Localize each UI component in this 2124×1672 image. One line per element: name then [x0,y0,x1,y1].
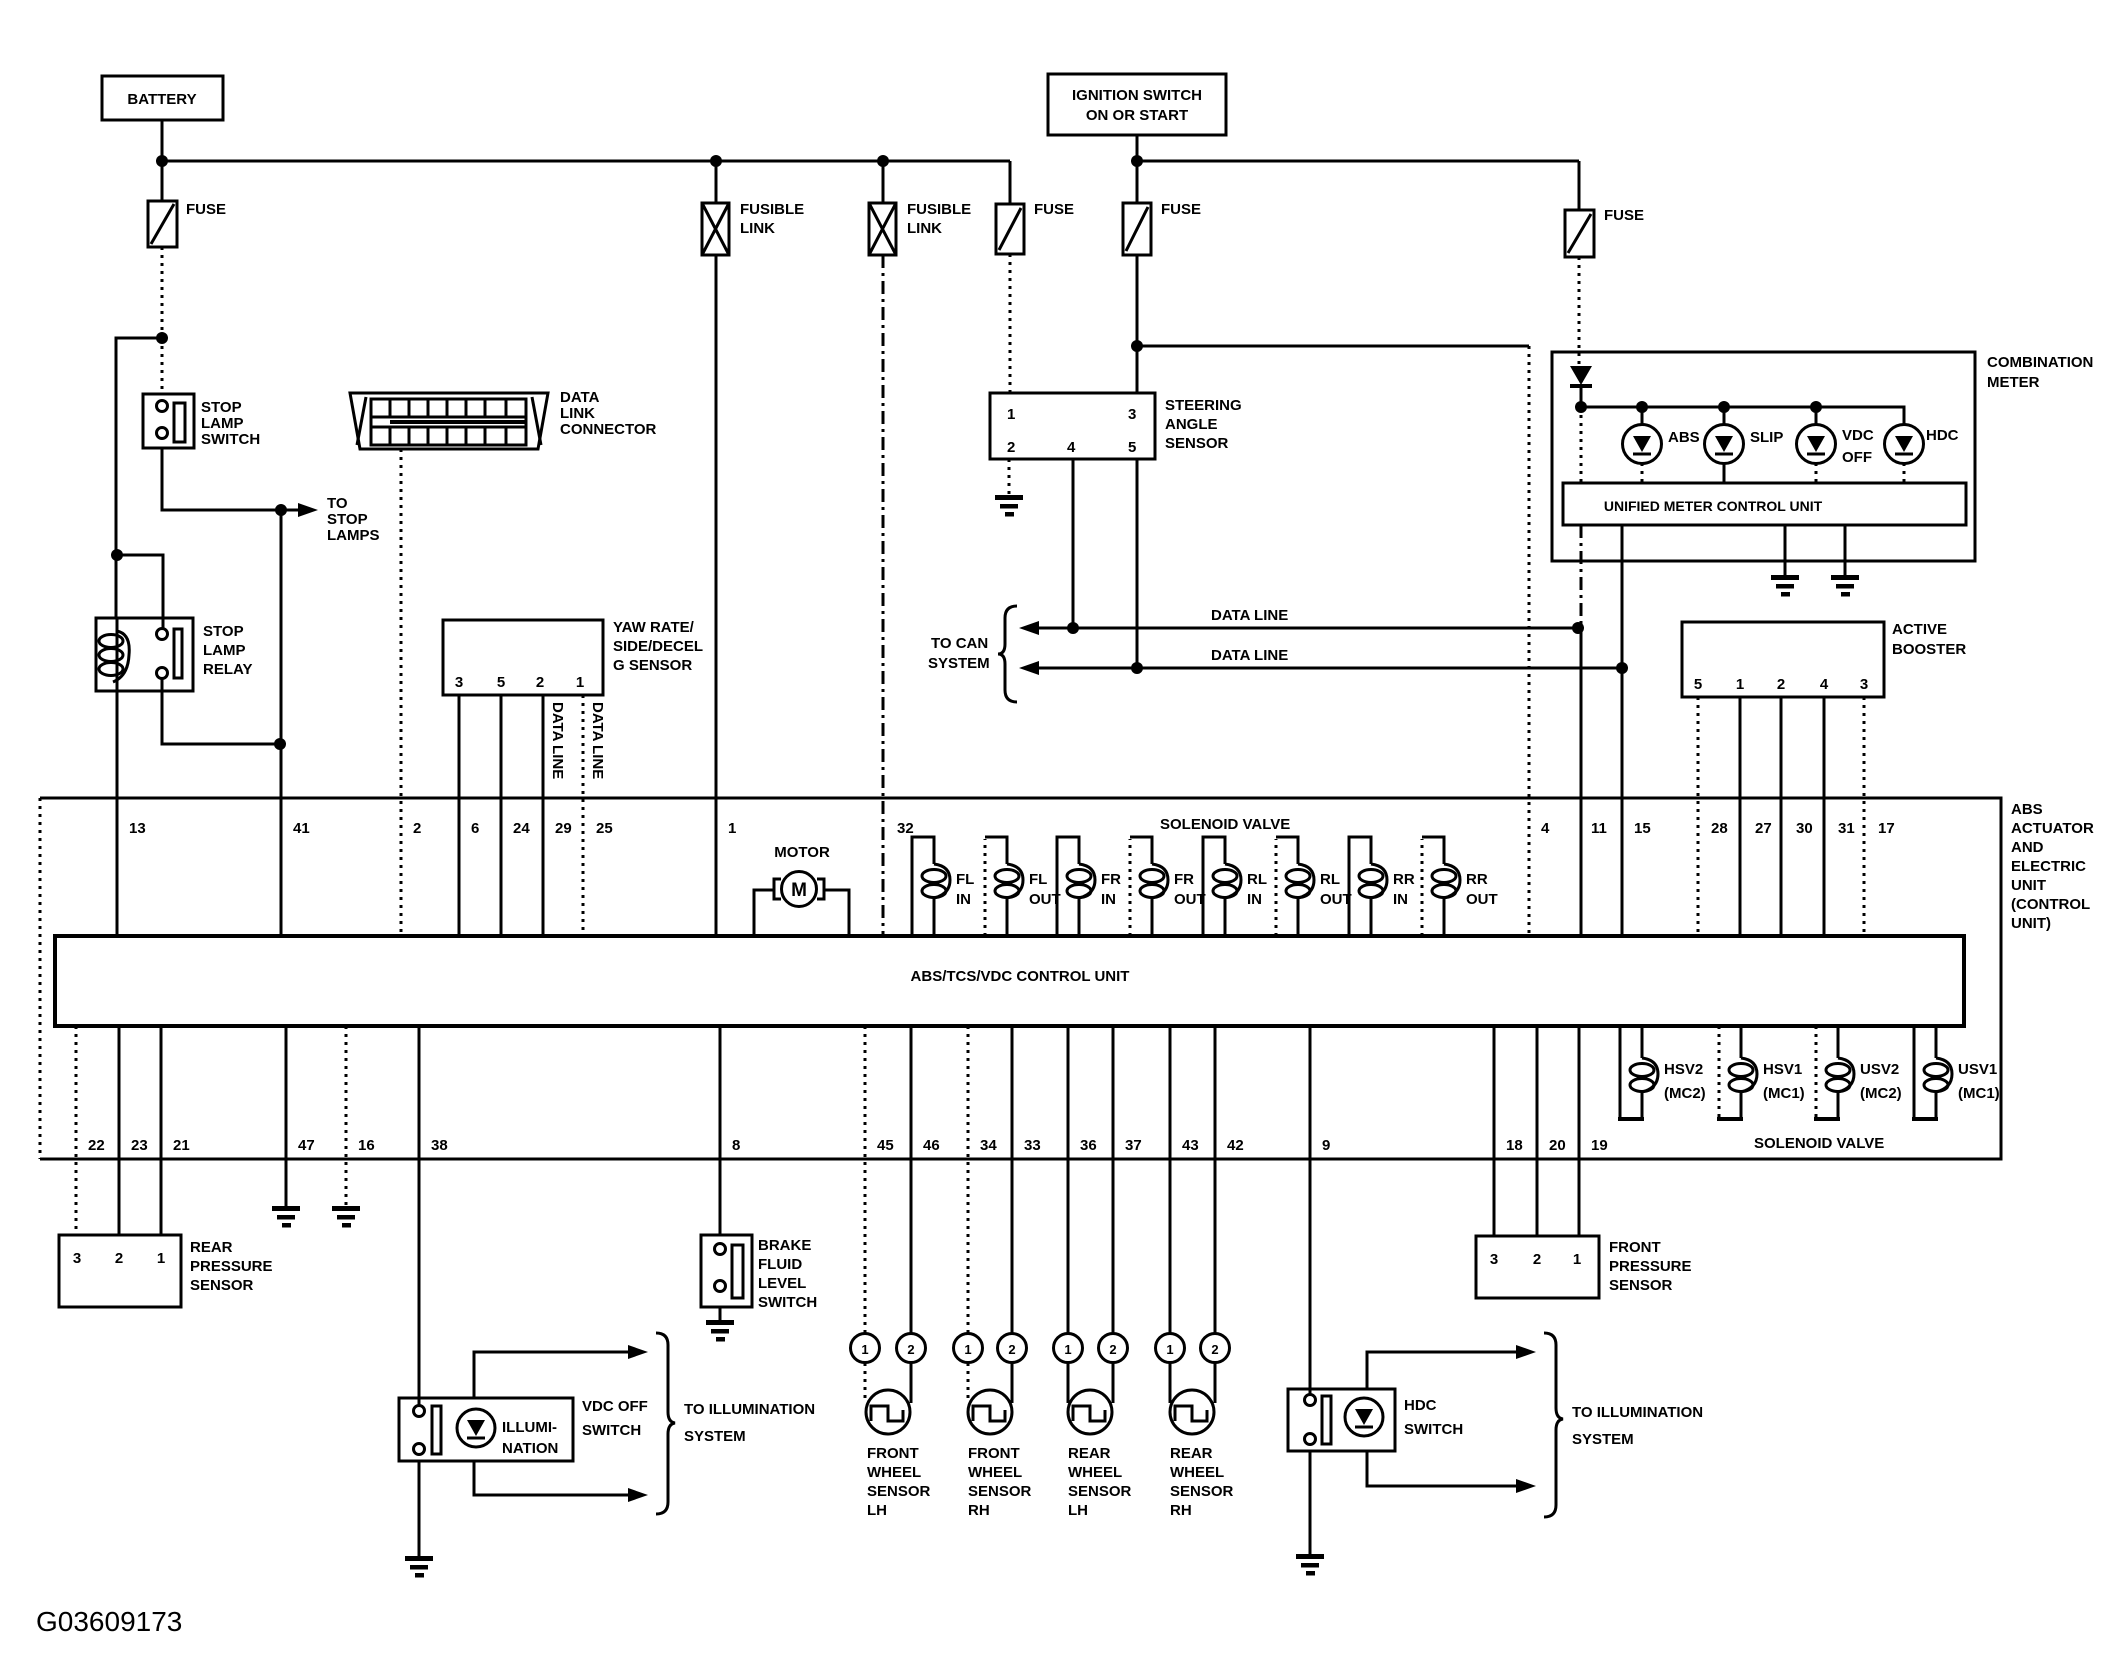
svg-text:METER: METER [1987,374,2040,391]
svg-text:42: 42 [1227,1137,1244,1154]
wire VDC illumination lower arrow [474,1461,648,1502]
node meter wire on data line 1 [1572,622,1584,634]
svg-text:FUSE: FUSE [1604,207,1644,224]
svg-text:1: 1 [1166,1342,1173,1357]
wire diode to UMCU [1580,407,1583,483]
node ABS lamp junction [1636,401,1648,413]
svg-text:PRESSURE: PRESSURE [190,1258,273,1275]
svg-text:22: 22 [88,1137,105,1154]
svg-text:FRONT: FRONT [968,1445,1020,1462]
svg-text:15: 15 [1634,820,1651,837]
svg-text:2: 2 [1777,676,1785,693]
svg-text:FUSIBLE: FUSIBLE [907,201,971,218]
node steering pin5 on data line 2 [1131,662,1143,674]
svg-text:2: 2 [413,820,421,837]
svg-text:46: 46 [923,1137,940,1154]
svg-text:20: 20 [1549,1137,1566,1154]
svg-text:21: 21 [173,1137,190,1154]
fusible link FL2 [869,161,971,255]
svg-text:3: 3 [455,674,463,691]
svg-text:2: 2 [536,674,544,691]
svg-text:UNIT: UNIT [2011,877,2046,894]
ground brake fluid switch [706,1320,734,1342]
battery B1 [102,76,223,120]
svg-text:1: 1 [964,1342,971,1357]
fuse F4 [1123,161,1201,255]
svg-text:HSV1: HSV1 [1763,1061,1802,1078]
svg-text:32: 32 [897,820,914,837]
svg-text:DATA LINE: DATA LINE [589,702,606,779]
ground UMCU 2 [1831,575,1859,597]
wire yaw pin1 to pin 25 [582,695,585,936]
svg-text:SWITCH: SWITCH [1404,1421,1463,1438]
wire data line 1 to pin 11 [1580,628,1583,936]
svg-text:RH: RH [968,1502,990,1519]
svg-text:UNIT): UNIT) [2011,915,2051,932]
wire pin 33 to sensor pin [1011,1026,1014,1334]
svg-text:ABS/TCS/VDC CONTROL UNIT: ABS/TCS/VDC CONTROL UNIT [911,968,1130,985]
svg-text:LH: LH [1068,1502,1088,1519]
wire bus A (battery feed) [162,160,1010,163]
svg-text:3: 3 [1490,1251,1498,1268]
svg-text:4: 4 [1067,439,1076,456]
ground HDC switch [1296,1554,1324,1576]
svg-text:FUSE: FUSE [186,201,226,218]
svg-text:9: 9 [1322,1137,1330,1154]
svg-text:FRONT: FRONT [1609,1239,1661,1256]
fuse F1 [148,201,226,247]
wire branch to relay column [116,338,162,618]
lamp HDC [1885,425,1959,484]
wire bus B (ignition feed) [1137,160,1579,163]
combination meter box [1552,352,2093,561]
svg-text:DATA LINE: DATA LINE [1211,647,1288,664]
svg-text:SWITCH: SWITCH [758,1294,817,1311]
svg-text:CONNECTOR: CONNECTOR [560,421,657,438]
svg-text:1: 1 [728,820,736,837]
wire data line 1 [1019,621,1578,635]
node meter wire on data line 2 [1616,662,1628,674]
wire pin 9 to HDC switch [1309,1026,1312,1395]
svg-text:SENSOR: SENSOR [1068,1483,1132,1500]
svg-text:(MC1): (MC1) [1763,1085,1805,1102]
svg-text:REAR: REAR [1068,1445,1111,1462]
front pressure sensor [1476,1236,1692,1298]
wire data line 2 [1019,661,1622,675]
svg-text:23: 23 [131,1137,148,1154]
svg-text:SENSOR: SENSOR [190,1277,254,1294]
wire UMCU to data line 1 (pin 11 feed) [1580,525,1583,628]
svg-text:31: 31 [1838,820,1855,837]
svg-text:ELECTRIC: ELECTRIC [2011,858,2086,875]
svg-text:1: 1 [1573,1251,1581,1268]
solenoid valve RL OUT [1276,837,1352,936]
svg-text:FUSE: FUSE [1161,201,1201,218]
wire steering pin4 to data line 1 [1072,459,1075,628]
svg-text:RL: RL [1320,871,1340,888]
wire pin 34 to sensor pin [967,1026,970,1334]
wire pin 46 to sensor pin [910,1026,913,1334]
front wheel sensor LH [851,1334,931,1520]
svg-text:STOP: STOP [327,511,368,528]
active booster box [1682,621,1966,697]
wire yaw pin3 to pin 6 [458,695,461,936]
svg-text:1: 1 [1064,1342,1071,1357]
wire UMCU ground 1 [1784,525,1787,577]
ABS/TCS/VDC control unit box [55,936,1964,1026]
wire relay contact to node 41 [162,678,280,744]
wire VDC OFF switch to ground [418,1461,421,1558]
wire fuse F3 to steering pin 1 [1009,254,1012,393]
svg-text:SYSTEM: SYSTEM [1572,1431,1634,1448]
svg-text:HDC: HDC [1926,427,1959,444]
svg-text:USV2: USV2 [1860,1061,1899,1078]
VDC OFF switch [399,1398,648,1461]
svg-text:ILLUMI-: ILLUMI- [502,1419,557,1436]
solenoid valve USV1 (MC1) [1912,1026,2000,1119]
svg-text:FRONT: FRONT [867,1445,919,1462]
svg-text:ABS: ABS [1668,429,1700,446]
svg-text:37: 37 [1125,1137,1142,1154]
svg-text:SWITCH: SWITCH [201,431,260,448]
svg-text:WHEEL: WHEEL [867,1464,921,1481]
ignition switch box [1048,74,1226,135]
svg-text:SIDE/DECEL: SIDE/DECEL [613,638,703,655]
wire fusible link 2 to pin 32 [882,255,885,936]
svg-text:SENSOR: SENSOR [968,1483,1032,1500]
wire data line 2 to pin 15 [1621,668,1624,936]
svg-text:2: 2 [1211,1342,1218,1357]
wire lamp feed bus [1581,407,1904,425]
svg-text:13: 13 [129,820,146,837]
svg-text:4: 4 [1820,676,1829,693]
wire HDC illumination upper arrow [1367,1345,1536,1389]
wire yaw pin2 to pin 29 [542,695,545,936]
data link connector J1 [350,389,657,449]
svg-text:LINK: LINK [560,405,595,422]
svg-text:DATA LINE: DATA LINE [549,702,566,779]
svg-text:SENSOR: SENSOR [867,1483,931,1500]
svg-text:AND: AND [2011,839,2044,856]
stop lamp relay K1 [96,618,252,691]
svg-text:RH: RH [1170,1502,1192,1519]
svg-text:IGNITION SWITCH: IGNITION SWITCH [1072,87,1202,104]
svg-text:FR: FR [1101,871,1121,888]
wire pin 43 to sensor pin [1169,1026,1172,1334]
yaw rate/side/decel G sensor [443,619,703,695]
svg-text:OUT: OUT [1320,891,1352,908]
brace VDC illumination [656,1333,675,1514]
label TO CAN SYSTEM [928,635,990,672]
svg-text:43: 43 [1182,1137,1199,1154]
fuse F3 [996,161,1074,254]
svg-text:IN: IN [1393,891,1408,908]
solenoid valve FR IN [1057,837,1121,936]
wire pin 20 to front pressure sensor [1536,1026,1539,1236]
solenoid valve RR IN [1349,837,1415,936]
wire HDC illumination lower arrow [1367,1451,1536,1493]
svg-text:LAMP: LAMP [203,642,246,659]
solenoid valve FR OUT [1130,837,1206,936]
svg-text:IN: IN [1101,891,1116,908]
solenoid valve FL IN [912,837,974,936]
svg-text:1: 1 [576,674,584,691]
wire pin 22 to rear pressure sensor [75,1026,78,1235]
svg-text:ON OR START: ON OR START [1086,107,1188,124]
svg-text:LAMP: LAMP [201,415,244,432]
svg-text:PRESSURE: PRESSURE [1609,1258,1692,1275]
svg-text:OUT: OUT [1174,891,1206,908]
diode D1 [1570,366,1592,407]
svg-text:1: 1 [157,1250,165,1267]
wire node to pin 4 column [1137,345,1529,348]
svg-text:REAR: REAR [1170,1445,1213,1462]
svg-text:(MC2): (MC2) [1664,1085,1706,1102]
lamp ABS [1623,407,1700,483]
wire fuse F4 to node [1136,255,1139,346]
wire arrow to stop lamps [281,495,380,544]
svg-text:COMBINATION: COMBINATION [1987,354,2093,371]
label to illumination system left [684,1401,815,1445]
node relay-41 junction [274,738,286,750]
node steering/pin4 junction [1131,340,1143,352]
svg-text:SENSOR: SENSOR [1165,435,1229,452]
steering angle sensor [990,393,1242,459]
svg-text:DATA: DATA [560,389,600,406]
wire pin 45 to sensor pin [864,1026,867,1334]
rear pressure sensor [59,1235,273,1307]
wire pin 19 to front pressure sensor [1578,1026,1581,1236]
svg-text:RELAY: RELAY [203,661,252,678]
svg-text:2: 2 [115,1250,123,1267]
wire UMCU ground 2 [1844,525,1847,577]
wire booster pin5 to pin 28 [1697,697,1700,936]
node steering pin4 on data line 1 [1067,622,1079,634]
svg-text:3: 3 [1860,676,1868,693]
label to illumination system right [1572,1404,1703,1448]
wire fuse F1 to junction [161,247,164,338]
svg-text:RL: RL [1247,871,1267,888]
wire booster pin1 to pin 27 [1739,697,1742,936]
wire yaw pin5 to pin 24 [500,695,503,936]
wire booster pin4 to pin 31 [1823,697,1826,936]
node battery bus junction [156,155,168,167]
svg-text:ACTIVE: ACTIVE [1892,621,1947,638]
svg-text:18: 18 [1506,1137,1523,1154]
svg-text:2: 2 [1109,1342,1116,1357]
svg-text:29: 29 [555,820,572,837]
wire steering pin2 to ground [1008,459,1011,497]
svg-text:SOLENOID VALVE: SOLENOID VALVE [1754,1135,1884,1152]
svg-text:FUSIBLE: FUSIBLE [740,201,804,218]
ground pin 16 [332,1206,360,1228]
wire pin 16 to ground [345,1026,348,1208]
wire steering pin5 to data line 2 [1136,459,1139,668]
solenoid valve RL IN [1203,837,1267,936]
svg-text:G03609173: G03609173 [36,1606,182,1637]
svg-text:FLUID: FLUID [758,1256,802,1273]
wire stop lamp switch to stop lamps [162,448,281,510]
fuse F5 [1565,161,1644,257]
node VDC OFF lamp junction [1810,401,1822,413]
solenoid valve HSV2 (MC2) [1618,1026,1706,1119]
brace HDC illumination [1544,1333,1563,1517]
svg-text:BATTERY: BATTERY [127,91,196,108]
svg-text:47: 47 [298,1137,315,1154]
ground pin 47 [272,1206,300,1228]
svg-text:LH: LH [867,1502,887,1519]
svg-text:OFF: OFF [1842,449,1872,466]
svg-text:25: 25 [596,820,613,837]
rear wheel sensor RH [1156,1334,1234,1520]
node stop-lamp branch junction [156,332,168,344]
wire relay coil to pin 13 [116,691,119,936]
svg-text:16: 16 [358,1137,375,1154]
svg-text:RR: RR [1393,871,1415,888]
svg-text:ACTUATOR: ACTUATOR [2011,820,2094,837]
svg-text:ABS: ABS [2011,801,2043,818]
wire junction to relay contact [117,555,163,629]
node SLIP lamp junction [1718,401,1730,413]
svg-text:OUT: OUT [1466,891,1498,908]
svg-text:(MC2): (MC2) [1860,1085,1902,1102]
solenoid valve FL OUT [985,837,1061,936]
svg-text:STEERING: STEERING [1165,397,1242,414]
svg-text:5: 5 [1128,439,1136,456]
brace to CAN system [998,606,1017,702]
node fusible link 2 junction [877,155,889,167]
lamp SLIP [1705,407,1784,483]
svg-text:17: 17 [1878,820,1895,837]
svg-text:2: 2 [1007,439,1015,456]
svg-text:27: 27 [1755,820,1772,837]
wire DLC to pin 2 [400,449,403,936]
svg-text:SLIP: SLIP [1750,429,1783,446]
svg-text:(CONTROL: (CONTROL [2011,896,2090,913]
wire node to steering pin 3 [1136,346,1139,393]
svg-text:5: 5 [497,674,505,691]
svg-text:REAR: REAR [190,1239,233,1256]
svg-text:YAW RATE/: YAW RATE/ [613,619,695,636]
wire node to pin 41 [280,510,283,936]
wire booster pin2 to pin 30 [1780,697,1783,936]
wire booster pin3 to pin 17 [1863,697,1866,936]
svg-text:2: 2 [907,1342,914,1357]
svg-text:LEVEL: LEVEL [758,1275,806,1292]
wire UMCU to data line 2 (pin 15 feed) [1621,525,1624,668]
svg-text:STOP: STOP [203,623,244,640]
svg-text:TO ILLUMINATION: TO ILLUMINATION [1572,1404,1703,1421]
wire pin 47 to ground [285,1026,288,1208]
svg-text:1: 1 [1736,676,1744,693]
unified meter control unit [1563,483,1966,525]
wire brake fluid switch to ground [719,1307,722,1322]
HDC switch [1288,1389,1463,1451]
svg-text:41: 41 [293,820,310,837]
wire pin 4 column [1528,346,1531,936]
svg-text:NATION: NATION [502,1440,558,1457]
wire pin 42 to sensor pin [1214,1026,1217,1334]
svg-text:34: 34 [980,1137,997,1154]
svg-text:(MC1): (MC1) [1958,1085,2000,1102]
svg-text:USV1: USV1 [1958,1061,1997,1078]
svg-text:DATA LINE: DATA LINE [1211,607,1288,624]
wire pin 23 to rear pressure sensor [118,1026,121,1235]
svg-text:2: 2 [1533,1251,1541,1268]
node ignition bus junction [1131,155,1143,167]
svg-text:SENSOR: SENSOR [1609,1277,1673,1294]
svg-text:3: 3 [73,1250,81,1267]
svg-text:ANGLE: ANGLE [1165,416,1218,433]
svg-text:SYSTEM: SYSTEM [684,1428,746,1445]
svg-text:M: M [791,880,807,901]
brake fluid level switch [701,1235,817,1311]
wire junction to stop lamp switch [161,338,164,394]
solenoid valve RR OUT [1422,837,1498,936]
wire pin 21 to rear pressure sensor [160,1026,163,1235]
svg-text:G SENSOR: G SENSOR [613,657,692,674]
svg-text:BOOSTER: BOOSTER [1892,641,1966,658]
node fusible link 1 junction [710,155,722,167]
wire bus A down to fuse F1 [161,161,164,201]
wire HDC switch to ground [1309,1451,1312,1556]
svg-text:LINK: LINK [740,220,775,237]
rear wheel sensor LH [1054,1334,1132,1520]
svg-text:SENSOR: SENSOR [1170,1483,1234,1500]
solenoid valve HSV1 (MC1) [1717,1026,1805,1119]
svg-text:45: 45 [877,1137,894,1154]
svg-text:HDC: HDC [1404,1397,1437,1414]
svg-text:2: 2 [1008,1342,1015,1357]
svg-text:6: 6 [471,820,479,837]
svg-text:28: 28 [1711,820,1728,837]
svg-text:33: 33 [1024,1137,1041,1154]
lamp VDC OFF [1797,407,1874,483]
svg-text:WHEEL: WHEEL [968,1464,1022,1481]
svg-text:8: 8 [732,1137,740,1154]
wire pin 8 to brake fluid switch [719,1026,722,1235]
wire pin 38 to VDC OFF switch [418,1026,421,1406]
svg-text:SWITCH: SWITCH [582,1422,641,1439]
svg-text:TO ILLUMINATION: TO ILLUMINATION [684,1401,815,1418]
ABS actuator and electric unit box [40,798,2094,1159]
solenoid valve USV2 (MC2) [1814,1026,1902,1119]
svg-text:24: 24 [513,820,530,837]
svg-text:VDC: VDC [1842,427,1874,444]
wire fusible link 1 to pin 1 [715,255,718,936]
ground VDC OFF switch [405,1556,433,1578]
svg-text:1: 1 [1007,406,1015,423]
svg-text:38: 38 [431,1137,448,1154]
wire ignition to bus B [1136,135,1139,161]
svg-text:TO: TO [327,495,348,512]
wire pin 18 to front pressure sensor [1493,1026,1496,1236]
wire VDC illumination upper arrow [474,1345,648,1398]
svg-text:3: 3 [1128,406,1136,423]
svg-text:FL: FL [956,871,974,888]
svg-text:11: 11 [1591,820,1607,837]
svg-text:LINK: LINK [907,220,942,237]
svg-text:IN: IN [956,891,971,908]
svg-text:5: 5 [1694,676,1702,693]
svg-text:SOLENOID VALVE: SOLENOID VALVE [1160,816,1290,833]
stop lamp switch S1 [143,394,260,448]
svg-text:WHEEL: WHEEL [1068,1464,1122,1481]
wire pin 37 to sensor pin [1112,1026,1115,1334]
svg-text:WHEEL: WHEEL [1170,1464,1224,1481]
wire battery to bus [161,120,164,161]
svg-text:UNIFIED METER CONTROL UNIT: UNIFIED METER CONTROL UNIT [1604,498,1823,514]
